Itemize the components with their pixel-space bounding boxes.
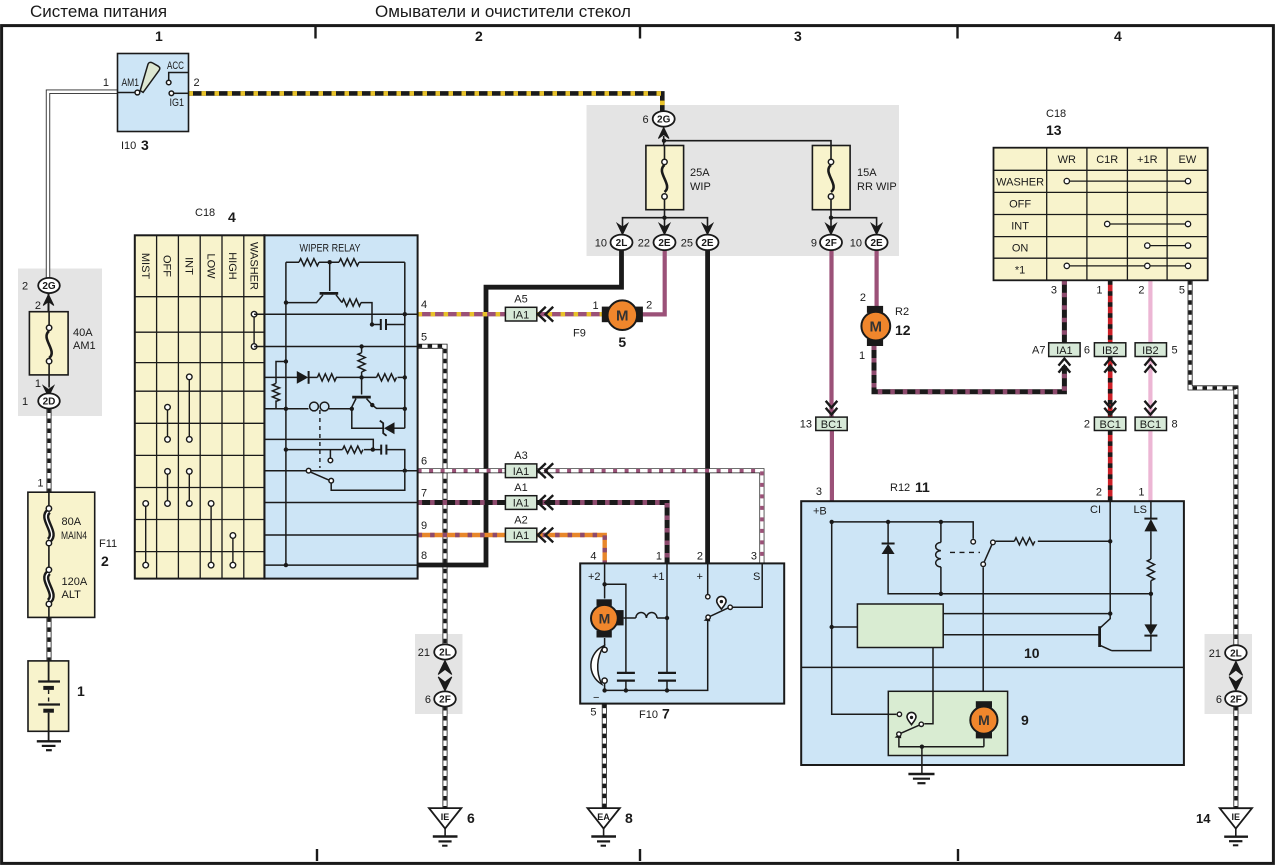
wiper relay (blue) internals — [254, 243, 418, 568]
connector 2D — [22, 393, 60, 408]
connector BC1-2 — [1084, 401, 1126, 431]
svg-text:8: 8 — [421, 550, 427, 562]
rc row — [286, 449, 343, 451]
fuse 15A RR WIP — [812, 146, 896, 235]
washer nozzle — [604, 638, 606, 647]
svg-text:−: − — [593, 692, 599, 704]
svg-text:*1: *1 — [1015, 265, 1025, 277]
svg-text:5: 5 — [1172, 345, 1178, 357]
ground IE 6 — [429, 808, 475, 846]
ground EA 8 — [588, 808, 634, 846]
svg-text:1: 1 — [656, 551, 662, 563]
svg-text:25: 25 — [681, 238, 693, 250]
svg-text:S: S — [753, 571, 760, 583]
svg-text:BC1: BC1 — [1099, 419, 1120, 431]
svg-text:5: 5 — [590, 707, 596, 719]
*1 row contact — [1067, 265, 1188, 267]
line from module to CI node — [943, 613, 1110, 615]
motor M washer — [597, 599, 612, 606]
svg-text:IA1: IA1 — [513, 309, 530, 321]
pump motor — [976, 701, 992, 708]
svg-text:3: 3 — [141, 137, 149, 153]
svg-text:C18: C18 — [1046, 108, 1066, 120]
gray box left (AM1 fuse area) — [18, 269, 102, 417]
svg-text:2F: 2F — [825, 238, 837, 249]
connector row ovals — [595, 235, 888, 251]
svg-text:2D: 2D — [43, 397, 56, 408]
svg-text:1: 1 — [77, 683, 85, 699]
svg-text:WIPER RELAY: WIPER RELAY — [300, 243, 362, 255]
table contacts — [1064, 178, 1191, 268]
svg-text:A5: A5 — [514, 294, 527, 306]
connector IA1-A2 — [505, 515, 553, 543]
svg-text:6: 6 — [1084, 345, 1090, 357]
svg-text:6: 6 — [1216, 694, 1222, 706]
svg-text:10: 10 — [595, 238, 607, 250]
branch below 25A — [623, 218, 708, 232]
key wedge — [140, 62, 160, 92]
svg-text:AM1: AM1 — [122, 77, 140, 89]
connector BC1-8 — [1135, 401, 1178, 431]
svg-text:21: 21 — [1209, 648, 1221, 660]
svg-text:INT: INT — [1011, 221, 1029, 233]
WASHER row contact — [1067, 180, 1188, 182]
connector IA1-A5 — [505, 294, 585, 340]
pin9 row — [264, 534, 417, 536]
connector pair 2L/2F right — [1209, 645, 1247, 706]
svg-text:10: 10 — [1024, 645, 1040, 661]
ground IE 14 — [1196, 808, 1252, 845]
svg-text:+: + — [697, 571, 703, 583]
control module 10 — [857, 604, 943, 648]
bracket to left resistor — [276, 362, 286, 384]
svg-text:+1R: +1R — [1137, 154, 1158, 166]
svg-text:10: 10 — [850, 238, 862, 250]
capacitor — [380, 319, 382, 330]
svg-text:RR WIP: RR WIP — [857, 181, 897, 193]
wire black/white table13 pin5 EW to 2L — [1190, 280, 1236, 645]
wire purple 2E-10 to motor R2 — [874, 250, 878, 306]
capacitor 1 — [617, 672, 635, 674]
zener — [395, 427, 405, 429]
contact LOW r8-r10 — [210, 504, 212, 566]
contact HIGH r9-r10 — [232, 536, 234, 566]
svg-text:CI: CI — [1090, 504, 1101, 516]
svg-text:21: 21 — [418, 647, 430, 659]
+2 vertical and branch — [604, 563, 606, 598]
svg-text:IA1: IA1 — [513, 530, 530, 542]
contact WASHER r2-r3 — [253, 314, 255, 346]
wire pink BC1 to R12 LS — [1148, 430, 1152, 502]
wire purple 2F-9 to BC1-13 — [829, 250, 833, 417]
svg-text:ON: ON — [1012, 242, 1029, 254]
svg-text:4: 4 — [1114, 28, 1122, 44]
svg-text:A1: A1 — [514, 482, 527, 494]
full width line — [801, 666, 1184, 668]
fuse 80A MAIN4 — [46, 511, 52, 540]
motor M R2 (12, rear wiper motor) — [859, 292, 911, 362]
IG1 contact — [174, 92, 189, 94]
connector IA1-A7 — [1032, 343, 1080, 373]
svg-text:12: 12 — [895, 322, 911, 338]
svg-text:2L: 2L — [616, 238, 628, 249]
wire yellow/black ignition IG1 to 2G — [189, 93, 663, 111]
svg-text:40A: 40A — [73, 327, 93, 339]
resistor left vertical — [272, 383, 279, 401]
svg-text:2: 2 — [697, 551, 703, 563]
svg-text:120A: 120A — [62, 576, 88, 588]
svg-text:Омыватели и очистители стекол: Омыватели и очистители стекол — [375, 2, 631, 21]
branch below 15A — [831, 210, 877, 232]
fuse box F11 (2): fuses 80A MAIN4 and 120A ALT — [28, 478, 117, 618]
INT row contact — [1107, 223, 1188, 225]
svg-text:IB2: IB2 — [1142, 345, 1159, 357]
svg-text:F9: F9 — [573, 328, 586, 340]
svg-text:9: 9 — [811, 238, 817, 250]
svg-text:BC1: BC1 — [821, 419, 842, 431]
protection diode — [886, 520, 890, 524]
svg-text:M: M — [870, 318, 883, 335]
svg-text:LS: LS — [1134, 504, 1147, 516]
diode row r4 — [264, 376, 297, 378]
svg-text:2L: 2L — [1230, 648, 1242, 659]
transistor output — [1098, 626, 1101, 647]
svg-text:3: 3 — [1051, 285, 1057, 297]
vertical resistor under pin5 — [361, 347, 363, 353]
contact MIST r8-r10 — [145, 504, 147, 566]
battery 1 — [28, 661, 85, 750]
svg-text:R2: R2 — [895, 306, 909, 318]
connector pair 2L/2F left — [418, 644, 456, 706]
svg-text:2: 2 — [860, 292, 866, 304]
wire black/purple relay pin7 to washer +1 — [418, 503, 667, 564]
svg-text:IA1: IA1 — [513, 466, 530, 478]
keyhole pull symbol — [717, 596, 726, 609]
connector IB2-5 — [1135, 343, 1178, 373]
svg-text:WASHER: WASHER — [996, 176, 1044, 188]
svg-text:2G: 2G — [657, 115, 671, 126]
fuse 120A ALT — [46, 573, 52, 602]
S switch — [707, 563, 709, 594]
module vertical to pump switch (upper part) — [932, 648, 934, 692]
svg-text:IA1: IA1 — [513, 498, 530, 510]
node — [328, 260, 332, 264]
ground inside R12 — [908, 747, 934, 784]
pin5 row — [254, 346, 418, 348]
ACC contact — [169, 73, 189, 81]
svg-text:INT: INT — [182, 257, 194, 275]
svg-text:2: 2 — [101, 553, 109, 569]
wire black/purple table13 WR to IA1-A7 — [1062, 280, 1067, 342]
svg-text:1: 1 — [859, 350, 865, 362]
svg-text:IA1: IA1 — [1056, 345, 1073, 357]
svg-text:5: 5 — [1179, 285, 1185, 297]
svg-text:5: 5 — [618, 334, 626, 350]
svg-text:+B: +B — [813, 506, 827, 518]
svg-text:EA: EA — [597, 812, 610, 822]
fuse 25A WIP — [617, 146, 713, 235]
wire black/white 2F to ground IE14 — [1233, 706, 1238, 808]
svg-text:1: 1 — [155, 28, 163, 44]
svg-text:6: 6 — [425, 694, 431, 706]
svg-text:1: 1 — [37, 478, 43, 490]
wire black thick 2E-25 to washer pin2 — [705, 250, 710, 563]
svg-text:IB2: IB2 — [1102, 345, 1119, 357]
arrow down into 2D — [43, 386, 54, 397]
svg-text:1: 1 — [1138, 487, 1144, 499]
svg-text:C18: C18 — [195, 207, 215, 219]
resistor — [339, 259, 359, 266]
svg-text:8: 8 — [625, 810, 633, 826]
svg-text:M: M — [978, 712, 990, 728]
svg-text:8: 8 — [1172, 419, 1178, 431]
washer pump box 9 — [888, 691, 1029, 755]
node and wire to 15A — [662, 139, 666, 143]
pin7 row — [264, 502, 417, 504]
svg-text:WASHER: WASHER — [247, 242, 259, 290]
svg-text:2: 2 — [35, 300, 41, 312]
wire pink IB2 to BC1 — [1148, 356, 1152, 417]
svg-text:15A: 15A — [857, 167, 877, 179]
wire orange/purple relay pin9 to washer +2 — [418, 535, 605, 563]
pin6 row — [264, 470, 417, 472]
wire red/black IB2 to BC1 — [1108, 356, 1113, 417]
wire black/purple motor R2 pin1 to IA1-A7 chevrons — [874, 346, 1064, 392]
svg-text:2: 2 — [475, 28, 483, 44]
wire black thick 2L-10 to relay pin8 — [418, 250, 622, 565]
svg-text:7: 7 — [421, 488, 427, 500]
connector 2G left — [22, 278, 60, 312]
svg-text:M: M — [616, 308, 629, 325]
wire white thin from ignition pin1 to 2G — [48, 92, 118, 279]
svg-text:2L: 2L — [439, 648, 451, 659]
svg-text:2E: 2E — [870, 238, 883, 249]
svg-text:3: 3 — [794, 28, 802, 44]
svg-text:WR: WR — [1058, 154, 1076, 166]
+1 vertical — [666, 563, 668, 672]
svg-text:2: 2 — [1138, 285, 1144, 297]
top rail — [286, 261, 405, 263]
svg-text:2F: 2F — [439, 695, 451, 706]
rear wiper switch table C18-13 — [994, 108, 1208, 297]
svg-text:22: 22 — [638, 238, 650, 250]
r6 row — [264, 439, 373, 449]
ground battery — [37, 740, 61, 742]
svg-text:EW: EW — [1179, 154, 1197, 166]
svg-text:M: M — [599, 610, 611, 626]
svg-text:R12: R12 — [890, 482, 910, 494]
resistor to CI — [1014, 538, 1035, 545]
gray box top middle (WIP fuses) — [587, 105, 900, 256]
svg-text:2E: 2E — [658, 238, 671, 249]
dashed link — [950, 551, 980, 553]
svg-text:1: 1 — [592, 300, 598, 312]
svg-text:F10: F10 — [639, 709, 658, 721]
resistor — [299, 259, 319, 266]
svg-text:1: 1 — [35, 378, 41, 390]
svg-text:+1: +1 — [652, 571, 665, 583]
rear wiper relay R12 (11) — [801, 479, 1184, 783]
svg-text:2F: 2F — [1230, 694, 1242, 705]
+B rail — [832, 522, 974, 539]
svg-text:2: 2 — [194, 77, 200, 89]
wire black/white 2D to F11 — [47, 409, 52, 493]
svg-text:6: 6 — [642, 114, 648, 126]
wire black/white washer pin5 to ground EA — [602, 704, 607, 808]
svg-text:2: 2 — [646, 300, 652, 312]
switch vertical to motor — [982, 567, 984, 701]
relay coil — [939, 520, 943, 524]
svg-text:6: 6 — [467, 810, 475, 826]
AM1 contact — [118, 92, 135, 94]
connector 2G top middle — [642, 111, 831, 145]
arrow up into 2G — [43, 295, 54, 306]
svg-text:F11: F11 — [99, 538, 117, 550]
contact INT r7-r8 — [188, 471, 190, 503]
right vertical — [404, 262, 406, 428]
wire red/black BC1 to R12 CI — [1108, 430, 1113, 502]
svg-text:4: 4 — [228, 209, 236, 225]
svg-text:2G: 2G — [42, 281, 56, 292]
node — [284, 300, 288, 304]
svg-text:AM1: AM1 — [73, 340, 96, 352]
ON row contact — [1147, 245, 1188, 247]
svg-text:3: 3 — [751, 551, 757, 563]
fuse 40A AM1 with connector arrows — [29, 312, 95, 397]
svg-text:OFF: OFF — [1009, 198, 1031, 210]
svg-text:7: 7 — [662, 706, 670, 722]
svg-text:5: 5 — [421, 332, 427, 344]
resistor collector Q1 — [342, 299, 361, 306]
svg-text:ALT: ALT — [62, 589, 82, 601]
svg-text:BC1: BC1 — [1140, 419, 1161, 431]
wire purple BC1-13 to R12 +B — [830, 430, 834, 502]
connector IA1-A1 — [505, 482, 553, 510]
wire black/white F11 to battery — [47, 617, 52, 661]
svg-text:LOW: LOW — [204, 253, 216, 279]
svg-text:IE: IE — [441, 812, 450, 822]
svg-text:MIST: MIST — [139, 253, 151, 280]
motor coupling coil — [624, 617, 636, 619]
svg-text:9: 9 — [1021, 712, 1029, 728]
transistor Q2 — [361, 377, 363, 394]
bottom rail — [605, 621, 708, 690]
svg-text:2: 2 — [1096, 487, 1102, 499]
wire pink table13 +1R to IB2 — [1148, 280, 1152, 342]
contact OFF r7-r8 — [167, 471, 169, 503]
svg-text:IG1: IG1 — [170, 97, 185, 109]
svg-text:80A: 80A — [62, 516, 82, 528]
svg-text:IE: IE — [1232, 812, 1241, 822]
svg-text:13: 13 — [800, 419, 812, 431]
connector IA1-A3 — [505, 450, 553, 478]
svg-text:ACC: ACC — [167, 60, 184, 72]
svg-text:9: 9 — [421, 520, 427, 532]
svg-text:+2: +2 — [588, 571, 601, 583]
dashed link — [319, 410, 321, 468]
svg-text:13: 13 — [1046, 122, 1062, 138]
wire black/white relay pin5 to 2L connector — [418, 346, 445, 645]
svg-text:25A: 25A — [690, 167, 710, 179]
wire red/black table13 C1R to IB2 — [1108, 280, 1113, 342]
svg-text:6: 6 — [421, 456, 427, 468]
wire purple 2E-22 to motor5 pin2 — [642, 250, 664, 314]
connector IB2-6 — [1084, 343, 1126, 373]
svg-text:MAIN4: MAIN4 — [61, 530, 87, 542]
svg-text:2E: 2E — [701, 238, 714, 249]
svg-text:Система питания: Система питания — [30, 2, 167, 21]
keyhole pull symbol — [907, 712, 916, 724]
svg-text:HIGH: HIGH — [226, 252, 238, 280]
wire black/white 2F to ground IE6 — [443, 706, 448, 808]
svg-text:14: 14 — [1196, 811, 1211, 826]
washer motor unit 7 (F10) — [580, 551, 784, 722]
wiper switch table — [135, 235, 265, 578]
svg-text:A7: A7 — [1032, 345, 1045, 357]
+B left vertical — [832, 522, 889, 714]
svg-text:A3: A3 — [514, 450, 527, 462]
svg-text:2: 2 — [1084, 419, 1090, 431]
svg-text:1: 1 — [1096, 285, 1102, 297]
contact INT r4-r6 — [188, 377, 190, 440]
left vertical — [285, 262, 287, 565]
ignition switch I10 (3) — [103, 54, 200, 154]
svg-text:A2: A2 — [514, 515, 527, 527]
svg-text:OFF: OFF — [161, 255, 173, 277]
svg-text:1: 1 — [22, 396, 28, 408]
svg-text:WIP: WIP — [690, 181, 711, 193]
relay switch — [971, 539, 976, 544]
svg-text:2: 2 — [22, 281, 28, 293]
svg-text:11: 11 — [915, 479, 930, 495]
contact OFF r5-r6 — [167, 407, 169, 439]
wire white/purple relay pin6 to washer S — [418, 471, 762, 564]
gray box 2L/2F left — [415, 634, 463, 714]
motor M 5 (front wiper motor F9) — [592, 300, 652, 351]
svg-text:4: 4 — [590, 551, 596, 563]
wire purple/yellow relay pin4 to motor5 pin1 — [418, 312, 603, 316]
svg-text:3: 3 — [816, 486, 822, 498]
inductor row r5 — [286, 408, 309, 410]
transistor Q1 — [329, 262, 331, 291]
svg-text:I10: I10 — [121, 140, 136, 152]
svg-text:1: 1 — [103, 77, 109, 89]
gray box 2L/2F right — [1205, 634, 1253, 714]
capacitor 2 — [658, 672, 676, 674]
pin4 row — [254, 313, 418, 315]
switch contacts — [143, 311, 257, 567]
svg-text:4: 4 — [421, 299, 427, 311]
pin8 row — [264, 564, 417, 566]
connector BC1-13 — [800, 401, 847, 431]
LS branch — [1150, 502, 1152, 519]
wiper relay box background — [264, 235, 417, 578]
CI vertical — [1109, 502, 1111, 614]
svg-text:C1R: C1R — [1096, 154, 1118, 166]
